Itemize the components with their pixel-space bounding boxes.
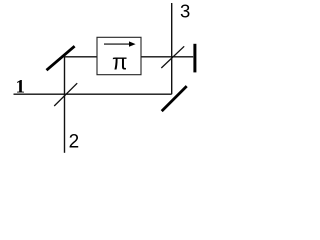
svg-text:2: 2: [69, 131, 80, 152]
detector bar (blocked port): [193, 44, 196, 73]
wire: top horizontal beam, mirror to box: [65, 56, 98, 58]
svg-text:π: π: [112, 49, 128, 74]
beam splitter BS2 (top-right slash): [161, 46, 184, 68]
mirror M2 (bottom-right, thick): [162, 86, 187, 111]
wire: left vertical beam (line to port 2): [64, 57, 66, 153]
wire: right vertical beam (port 3): [171, 3, 173, 94]
svg-text:3: 3: [180, 1, 190, 22]
phase shifter box U1: [97, 37, 141, 74]
wire: input beam line 1 (bottom horizontal): [14, 93, 172, 95]
mirror M1 (top-left, thick): [47, 46, 75, 70]
svg-text:1: 1: [15, 77, 25, 98]
wire: top horizontal beam, box to detector bar: [141, 56, 193, 58]
beam splitter BS1 (bottom-left slash): [54, 83, 77, 106]
arrow inside box: [104, 43, 130, 45]
